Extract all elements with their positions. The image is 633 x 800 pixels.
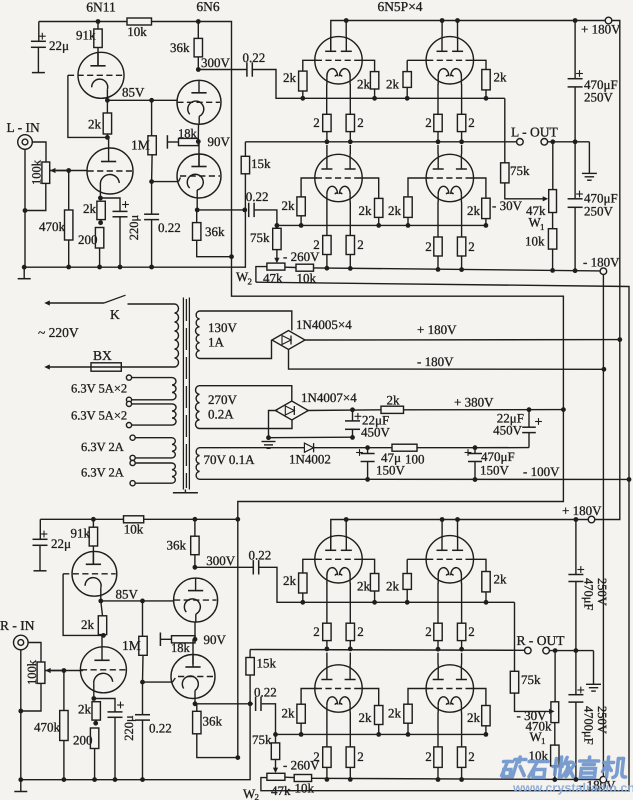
capacitor 47u 150V	[367, 448, 369, 454]
svg-text:- 100V: - 100V	[523, 464, 560, 479]
ground output (L)	[588, 142, 590, 174]
watermark char yin	[587, 757, 591, 761]
tube 6N5P V6 (L lower-right)	[426, 154, 473, 201]
resistor 91k (L)	[97, 22, 99, 30]
resistor 36k plate 6N6a (R)	[193, 517, 198, 522]
svg-text:90V: 90V	[204, 632, 227, 647]
cathode node V1b (L)	[99, 195, 101, 199]
tube 6N6 triode V2a (R)	[174, 578, 218, 622]
svg-text:10k: 10k	[295, 781, 315, 796]
resistor 10k series rail (R)	[124, 516, 144, 523]
resistor 1M (L)	[149, 98, 154, 103]
wire output rail (L)	[245, 141, 516, 143]
svg-text:36k: 36k	[167, 538, 187, 553]
terminal R-OUT right	[543, 647, 550, 654]
svg-text:200: 200	[78, 232, 98, 247]
resistor 2k grid V6a (R)	[408, 689, 428, 705]
svg-text:2: 2	[357, 749, 364, 764]
wire grid V1a to plate V1b feedback (L)	[68, 75, 108, 137]
wire jack hot to pot (R)	[28, 643, 41, 663]
resistor 2 cathode V5b (R)	[349, 713, 351, 747]
tube 6N11 triode V1a (L)	[78, 52, 124, 98]
svg-text:+ 380V: + 380V	[454, 395, 494, 410]
transformer filament winding 6.3V 2A (2)	[172, 463, 176, 483]
wire cathode V2b to coupling (L)	[196, 199, 198, 210]
svg-text:270V: 270V	[208, 392, 238, 407]
resistor 2k cathode V1b (R)	[92, 702, 100, 720]
svg-text:250V: 250V	[595, 578, 609, 606]
potentiometer W1 470k (R)	[551, 702, 559, 723]
resistor 10k W1 (L)	[552, 213, 554, 229]
tube 6N5P V5 (L lower-left)	[315, 154, 362, 201]
svg-text:2k: 2k	[88, 117, 102, 132]
node 90V (L)	[197, 125, 199, 142]
node dots on bias rail (R)	[62, 777, 67, 782]
capacitor 0.22 to rail (R)	[142, 682, 144, 715]
capacitor 4700uF 250V (R)	[575, 651, 577, 695]
wire cathode V2b to coupling (R)	[194, 699, 196, 704]
svg-text:2: 2	[357, 237, 364, 252]
resistor 2k +380V series	[381, 406, 404, 413]
node dots on bias rail (L)	[66, 265, 71, 270]
svg-text:www.crystalradio.cn: www.crystalradio.cn	[512, 781, 633, 795]
resistor 2k grid V3a (R)	[303, 559, 317, 573]
wire B+ rail left (L)	[39, 21, 127, 23]
svg-text:100: 100	[405, 452, 425, 467]
svg-text:2k: 2k	[282, 198, 296, 213]
wire 36k bottom to A line (R)	[197, 734, 238, 758]
svg-text:47k: 47k	[263, 271, 283, 286]
bridge rectifier 1N4007 x4	[275, 401, 308, 420]
wire grid rail lower (R)	[276, 733, 486, 735]
svg-text:6N6: 6N6	[196, 0, 219, 14]
svg-text:2k: 2k	[388, 706, 402, 721]
resistor 2 cathode V6a (L)	[437, 202, 439, 237]
resistor 470k (L)	[68, 171, 70, 211]
resistor 2k grid V6a (L)	[408, 178, 428, 197]
transformer filament winding 6.3V 5A x2 (1)	[172, 378, 176, 400]
wire grid rail lower (L)	[277, 224, 486, 226]
resistor 2k grid V6b (R)	[471, 689, 486, 706]
capacitor 22uF 450V right	[528, 410, 530, 428]
svg-text:91k: 91k	[71, 526, 91, 541]
resistor 15k feedback (L)	[244, 142, 246, 157]
svg-text:K: K	[110, 307, 120, 322]
resistor 10k W1 (R)	[554, 723, 556, 746]
ground PSU common	[262, 441, 276, 443]
tube 6N5P V3 (R upper-left)	[315, 536, 362, 583]
resistor 2k grid V5a (R)	[301, 689, 317, 705]
svg-text:47k: 47k	[271, 783, 291, 798]
wire 15k bottom / B line (R)	[21, 675, 250, 780]
svg-text:L - OUT: L - OUT	[511, 125, 558, 140]
svg-text:2: 2	[468, 115, 475, 130]
resistor 36k cathode V2b (R)	[196, 704, 198, 712]
svg-text:1N4005×4: 1N4005×4	[296, 317, 352, 332]
terminal L-OUT right	[541, 139, 548, 146]
svg-text:36k: 36k	[203, 714, 223, 729]
tube 6N6 triode V2b (L)	[198, 142, 200, 167]
wire +180V rail output (L)	[331, 21, 605, 52]
svg-text:0.22: 0.22	[149, 721, 172, 736]
ground output (R)	[593, 651, 595, 685]
svg-text:75k: 75k	[510, 163, 530, 178]
svg-text:0.22: 0.22	[158, 220, 181, 235]
tube 6N5P V6 (R lower-right)	[426, 665, 473, 712]
terminal -180V (R)	[600, 776, 607, 783]
watermark char shou	[555, 759, 557, 775]
watermark char shi	[529, 760, 548, 764]
svg-text:2: 2	[357, 115, 364, 130]
wire common rail	[269, 436, 353, 439]
node 85V (R)	[100, 597, 102, 601]
switch K mains	[48, 302, 104, 304]
svg-text:15k: 15k	[257, 656, 277, 671]
svg-text:250V: 250V	[595, 706, 609, 734]
svg-text:2: 2	[313, 749, 320, 764]
svg-text:75k: 75k	[521, 672, 541, 687]
tube 6N6 triode V2b (R)	[192, 639, 194, 664]
resistor 2k SRPP (R)	[101, 601, 103, 616]
potentiometer 100k (R)	[37, 662, 45, 683]
svg-text:36k: 36k	[170, 40, 190, 55]
potentiometer 100k (L)	[42, 162, 50, 183]
svg-text:150V: 150V	[376, 463, 406, 478]
svg-text:0.2A: 0.2A	[208, 407, 234, 422]
wire grid V1a to plate V1b feedback (R)	[63, 574, 103, 636]
wire 270V top to bridge2	[200, 386, 292, 401]
wire pot wiper arrow (R)	[51, 670, 83, 672]
watermark char ji	[606, 757, 608, 777]
potentiometer W2 47k (L)	[267, 263, 285, 270]
node 300V (L)	[196, 67, 201, 72]
capacitor 0.22 coupling upper (L)	[198, 69, 247, 71]
resistor 10k series rail (L)	[127, 18, 152, 25]
terminal +180V (R)	[588, 516, 595, 523]
cathode node V1b (R)	[93, 693, 95, 698]
wire -100V bottom rail PSU	[200, 478, 630, 480]
wire bias rail to -180V terminal (L)	[314, 268, 601, 271]
wire pot bottom to sleeve (L)	[25, 183, 46, 210]
svg-text:2k: 2k	[494, 70, 508, 85]
wire +380V rail	[307, 409, 382, 412]
svg-text:250V: 250V	[584, 204, 614, 219]
svg-text:100k: 100k	[25, 659, 39, 685]
svg-text:300V: 300V	[201, 55, 231, 70]
svg-text:2k: 2k	[467, 203, 481, 218]
svg-text:300V: 300V	[206, 553, 236, 568]
wire 1M node to V2b grid (R)	[143, 681, 173, 683]
transformer filament winding 6.3V 5A x2 (2)	[172, 404, 176, 425]
wire jack hot to pot (L)	[32, 142, 46, 162]
svg-text:70V 0.1A: 70V 0.1A	[204, 452, 256, 467]
svg-text:91k: 91k	[76, 28, 96, 43]
resistor 75k bias (L)	[273, 228, 281, 249]
wire +180V bus right edge	[595, 21, 620, 520]
resistor 91k (R)	[91, 517, 96, 522]
svg-text:2: 2	[313, 115, 320, 130]
wire pot bottom to sleeve (R)	[21, 683, 41, 711]
wire -180V rail PSU	[289, 350, 604, 370]
wire grid rail upper (R)	[303, 601, 515, 603]
resistor 75k right branch (L)	[504, 98, 506, 163]
resistor 10k bias series (L)	[285, 266, 296, 268]
svg-text:2k: 2k	[359, 203, 373, 218]
svg-text:18k: 18k	[178, 127, 198, 141]
resistor 2 cathode V6b (R)	[461, 713, 463, 747]
svg-text:2: 2	[468, 239, 475, 254]
svg-text:6.3V 5A×2: 6.3V 5A×2	[71, 382, 127, 396]
bridge rectifier 1N4005 x4	[272, 331, 305, 350]
transformer core ground	[184, 490, 186, 493]
svg-text:- 180V: - 180V	[417, 354, 454, 369]
svg-text:6.3V 2A: 6.3V 2A	[81, 440, 124, 454]
svg-text:220μ: 220μ	[127, 214, 141, 240]
svg-text:L - IN: L - IN	[7, 120, 40, 135]
wire pot wiper arrow (L)	[56, 170, 88, 172]
resistor 2k grid V5a (L)	[301, 178, 317, 197]
resistor 2k grid V3b (R)	[360, 559, 375, 573]
tube 6N11 triode V1a (R)	[72, 551, 117, 596]
svg-text:+ 180V: + 180V	[562, 503, 602, 518]
wire +180V rail output (R)	[331, 520, 588, 551]
wire grid V2b entry (R)	[172, 678, 175, 682]
svg-text:+ 180V: + 180V	[417, 322, 457, 337]
wire 75k to W1 wiper arrow (R)	[515, 693, 551, 711]
resistor 2 cathode V3a (L)	[326, 84, 328, 114]
svg-text:2k: 2k	[494, 572, 508, 587]
resistor 2k grid V4a (L)	[407, 59, 428, 61]
wire 130V top to bridge1	[200, 311, 292, 331]
wire B+ rail right part + down via A (L)	[152, 22, 564, 410]
resistor 2 cathode V4b (L)	[461, 84, 463, 114]
wire grid V2b entry (L)	[179, 178, 181, 182]
resistor 100 series	[392, 444, 417, 451]
tube 6N11 triode V1b (L)	[108, 137, 110, 148]
svg-text:R - OUT: R - OUT	[517, 633, 566, 648]
potentiometer W2 47k (R)	[267, 773, 285, 780]
wire L-OUT to cap node	[548, 141, 590, 143]
resistor 2k grid V4b (R)	[471, 559, 486, 571]
tube 6N5P V4 (L upper-right)	[426, 37, 473, 84]
resistor 470k (R)	[63, 671, 65, 711]
wire 1M node to V2b grid (L)	[152, 181, 179, 183]
wire 130V bottom to bridge1	[200, 340, 272, 359]
svg-text:4700μF: 4700μF	[582, 706, 596, 745]
svg-text:250V: 250V	[584, 90, 614, 105]
resistor 2k SRPP (L)	[106, 100, 108, 113]
wire +180V rail PSU	[305, 339, 620, 341]
svg-text:2k: 2k	[283, 70, 297, 85]
svg-text:75k: 75k	[250, 230, 270, 245]
resistor 2 cathode V5a (R)	[326, 713, 328, 747]
svg-text:470k: 470k	[39, 219, 66, 234]
svg-text:130V: 130V	[208, 320, 238, 335]
resistor 75k right branch (R)	[514, 602, 516, 671]
capacitor 0.22 coupling lower (L)	[248, 203, 250, 217]
capacitor 22u bootstrap (R)	[39, 519, 41, 539]
resistor 2k cathode V1b (L)	[97, 201, 105, 219]
svg-text:0.22: 0.22	[246, 189, 269, 204]
svg-text:2k: 2k	[78, 702, 92, 717]
wire jack sleeve down (L)	[24, 149, 26, 266]
terminal -180V (L)	[600, 268, 607, 275]
capacitor 22u bootstrap (L)	[38, 22, 40, 42]
watermark logo kuangshi shouyinji (blue CJK)	[501, 757, 627, 778]
wire 75k to W2 wiper arrow (R)	[275, 760, 277, 772]
capacitor 22uF 450V left	[352, 410, 354, 421]
wire A-line vertical (R)	[237, 519, 239, 757]
resistor 2 cathode V5a (L)	[326, 202, 328, 236]
svg-text:2k: 2k	[81, 617, 95, 632]
wire 85V to 6N6 grid (L)	[107, 99, 177, 101]
svg-text:2: 2	[313, 624, 320, 639]
wire output rail (R)	[250, 649, 524, 652]
node 85V (L)	[106, 99, 108, 100]
capacitor 470uF upper (L)	[574, 21, 576, 79]
resistor 2k grid V5b (R)	[360, 689, 379, 706]
capacitor 0.22 coupling upper (R)	[195, 566, 253, 568]
svg-text:2: 2	[468, 624, 475, 639]
node 300V (R)	[193, 565, 198, 570]
wire bias rail to -180V terminal (R)	[312, 778, 600, 779]
svg-text:10k: 10k	[127, 24, 147, 39]
svg-text:2k: 2k	[357, 579, 371, 594]
resistor 2k grid V3a (L)	[303, 60, 317, 71]
capacitor 0.22 coupling lower (R)	[255, 697, 257, 711]
svg-text:15k: 15k	[251, 156, 271, 171]
svg-text:2: 2	[425, 749, 432, 764]
resistor 2k grid V6b (L)	[471, 178, 486, 198]
svg-text:90V: 90V	[208, 134, 231, 149]
svg-text:0.22: 0.22	[243, 50, 266, 65]
node 90V (R)	[194, 622, 196, 639]
fuse BX mains	[48, 366, 91, 368]
transformer secondary 70V 0.1A	[196, 448, 199, 480]
resistor 1M (R)	[140, 599, 145, 604]
resistor 2 cathode V4a (R)	[437, 583, 439, 623]
svg-text:2k: 2k	[282, 706, 296, 721]
resistor 200 (L)	[95, 228, 103, 249]
svg-text:2: 2	[425, 624, 432, 639]
resistor 36k cathode V2b (L)	[196, 210, 198, 223]
svg-text:450V: 450V	[361, 425, 391, 440]
capacitor 470uF 150V	[474, 448, 476, 454]
svg-text:36k: 36k	[205, 224, 225, 239]
svg-text:2k: 2k	[386, 77, 400, 92]
wire grid rail upper (L)	[303, 97, 505, 99]
wire -180V bus right edge	[602, 275, 604, 777]
resistor 2k grid V4b (L)	[471, 60, 486, 69]
resistor 2 cathode V6b (L)	[461, 202, 463, 237]
svg-text:1: 1	[540, 222, 545, 232]
svg-text:10k: 10k	[124, 522, 144, 537]
resistor 10k bias series (R)	[285, 776, 294, 778]
transformer filament winding 6.3V 2A (1)	[172, 438, 176, 458]
svg-text:- 180V: - 180V	[583, 255, 620, 270]
wire +380 feed down to bottom channel	[238, 410, 564, 520]
wire line2 W2-left bus	[256, 282, 629, 791]
svg-text:450V: 450V	[493, 423, 523, 438]
wire coupling lower to grid rail (R)	[262, 704, 276, 735]
wire 75k to W2 wiper arrow (L)	[276, 250, 278, 262]
resistor 2k grid V4a (R)	[407, 558, 428, 560]
resistor 2 cathode V6a (R)	[437, 713, 439, 747]
capacitor 0.22 to rail (L)	[151, 182, 153, 215]
svg-text:1M: 1M	[131, 138, 150, 153]
resistor 2 cathode V3a (R)	[326, 583, 328, 623]
tube 6N11 triode V1b (R)	[101, 635, 103, 647]
svg-text:85V: 85V	[116, 587, 139, 602]
tube 6N6 triode V2a (L)	[177, 80, 221, 124]
svg-text:2: 2	[313, 237, 320, 252]
capacitor 470uF lower (L)	[574, 142, 576, 199]
wire coupling to grid rail (L)	[252, 70, 302, 99]
resistor 2k grid V5b (L)	[360, 178, 379, 198]
svg-text:2: 2	[425, 115, 432, 130]
resistor 200 (R)	[90, 728, 98, 749]
resistor 15k feedback (R)	[249, 650, 251, 658]
svg-text:150V: 150V	[480, 463, 510, 478]
svg-text:+ 180V: + 180V	[581, 22, 621, 37]
resistor 18k (R)	[172, 636, 196, 643]
svg-text:6.3V 2A: 6.3V 2A	[81, 466, 124, 480]
svg-text:2: 2	[248, 277, 253, 287]
node +380 feed dot	[561, 407, 566, 412]
transformer T primary winding	[175, 304, 179, 367]
tube 6N5P V5 (R lower-left)	[315, 665, 362, 712]
transformer secondary 130V 1A	[196, 311, 200, 359]
tube 6N5P V4 (R upper-right)	[426, 536, 473, 583]
svg-text:2: 2	[357, 624, 364, 639]
svg-text:0.22: 0.22	[249, 548, 272, 563]
wire B+ rail left (R)	[40, 518, 123, 520]
wire 75k to W1 wiper arrow (L)	[505, 183, 544, 199]
svg-text:~ 220V: ~ 220V	[38, 325, 79, 340]
svg-text:2k: 2k	[283, 573, 297, 588]
svg-text:1: 1	[541, 736, 546, 746]
svg-text:220μ: 220μ	[122, 715, 136, 741]
ground bias rail stub (R)	[18, 777, 23, 782]
wire coupling to grid rail (R)	[259, 567, 303, 602]
svg-text:1N4002: 1N4002	[289, 452, 331, 467]
resistor 18k (L)	[179, 138, 199, 145]
svg-text:85V: 85V	[122, 85, 145, 100]
resistor 2 cathode V3b (L)	[349, 84, 351, 114]
svg-text:1N4007×4: 1N4007×4	[301, 390, 357, 405]
svg-text:470k: 470k	[34, 720, 61, 735]
svg-text:2: 2	[255, 792, 260, 800]
wire 270V bottom to bridge2	[200, 420, 293, 429]
svg-text:2k: 2k	[357, 77, 371, 92]
svg-text:200: 200	[73, 733, 93, 748]
tube 6N5P V3 (L upper-left)	[315, 37, 362, 84]
wire coupling lower to grid rail (L)	[254, 210, 277, 226]
resistor 2k grid V3b (L)	[360, 60, 375, 71]
svg-text:6N11: 6N11	[86, 0, 116, 15]
svg-text:0.22: 0.22	[254, 685, 277, 700]
svg-text:R - IN: R - IN	[0, 618, 35, 633]
svg-text:2k: 2k	[388, 203, 402, 218]
svg-text:1M: 1M	[122, 638, 141, 653]
capacitor 220u (L)	[100, 198, 120, 211]
wire bridge2 minus to ground node	[269, 411, 278, 438]
svg-text:BX: BX	[93, 348, 112, 363]
svg-text:2k: 2k	[387, 393, 401, 408]
wire 15k bottom / B line (L)	[24, 174, 245, 267]
svg-text:2k: 2k	[467, 710, 481, 725]
resistor 2 cathode V3b (R)	[349, 583, 351, 623]
